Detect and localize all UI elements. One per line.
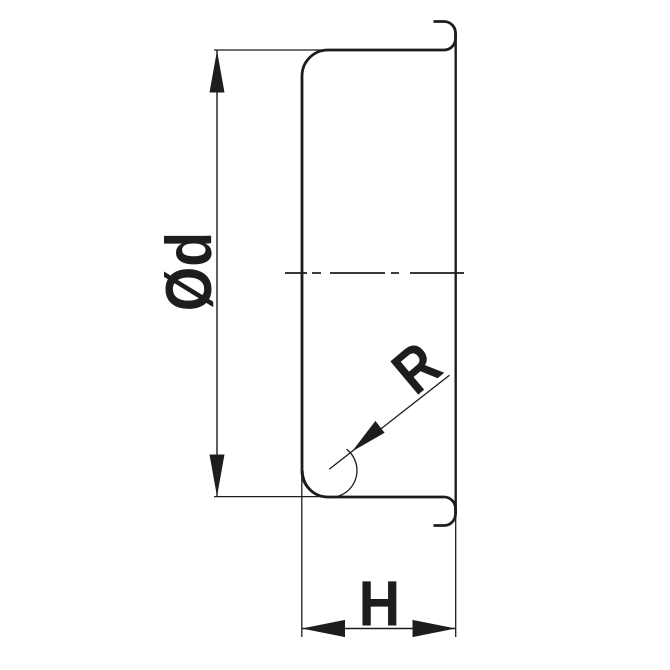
radius circle R (303, 449, 357, 497)
arrow R (352, 421, 385, 452)
dimension line H (302, 628, 456, 630)
dimension line Ød (216, 51, 218, 497)
svg-text:R: R (379, 329, 454, 408)
rim edge line (455, 33, 457, 515)
arrow H right (413, 620, 456, 637)
arrow H left (302, 620, 345, 637)
extension line top (Ød) (214, 49, 329, 51)
cap profile outline (302, 22, 456, 526)
svg-text:H: H (359, 568, 401, 639)
extension line bottom (Ød) (214, 496, 329, 498)
arrow Ød top (210, 51, 225, 93)
arrow Ød bottom (210, 455, 225, 497)
extension line H left (301, 471, 303, 637)
svg-text:Ød: Ød (153, 232, 225, 311)
centerline (285, 272, 464, 274)
extension line H right (455, 515, 457, 637)
leader line R (329, 375, 449, 469)
